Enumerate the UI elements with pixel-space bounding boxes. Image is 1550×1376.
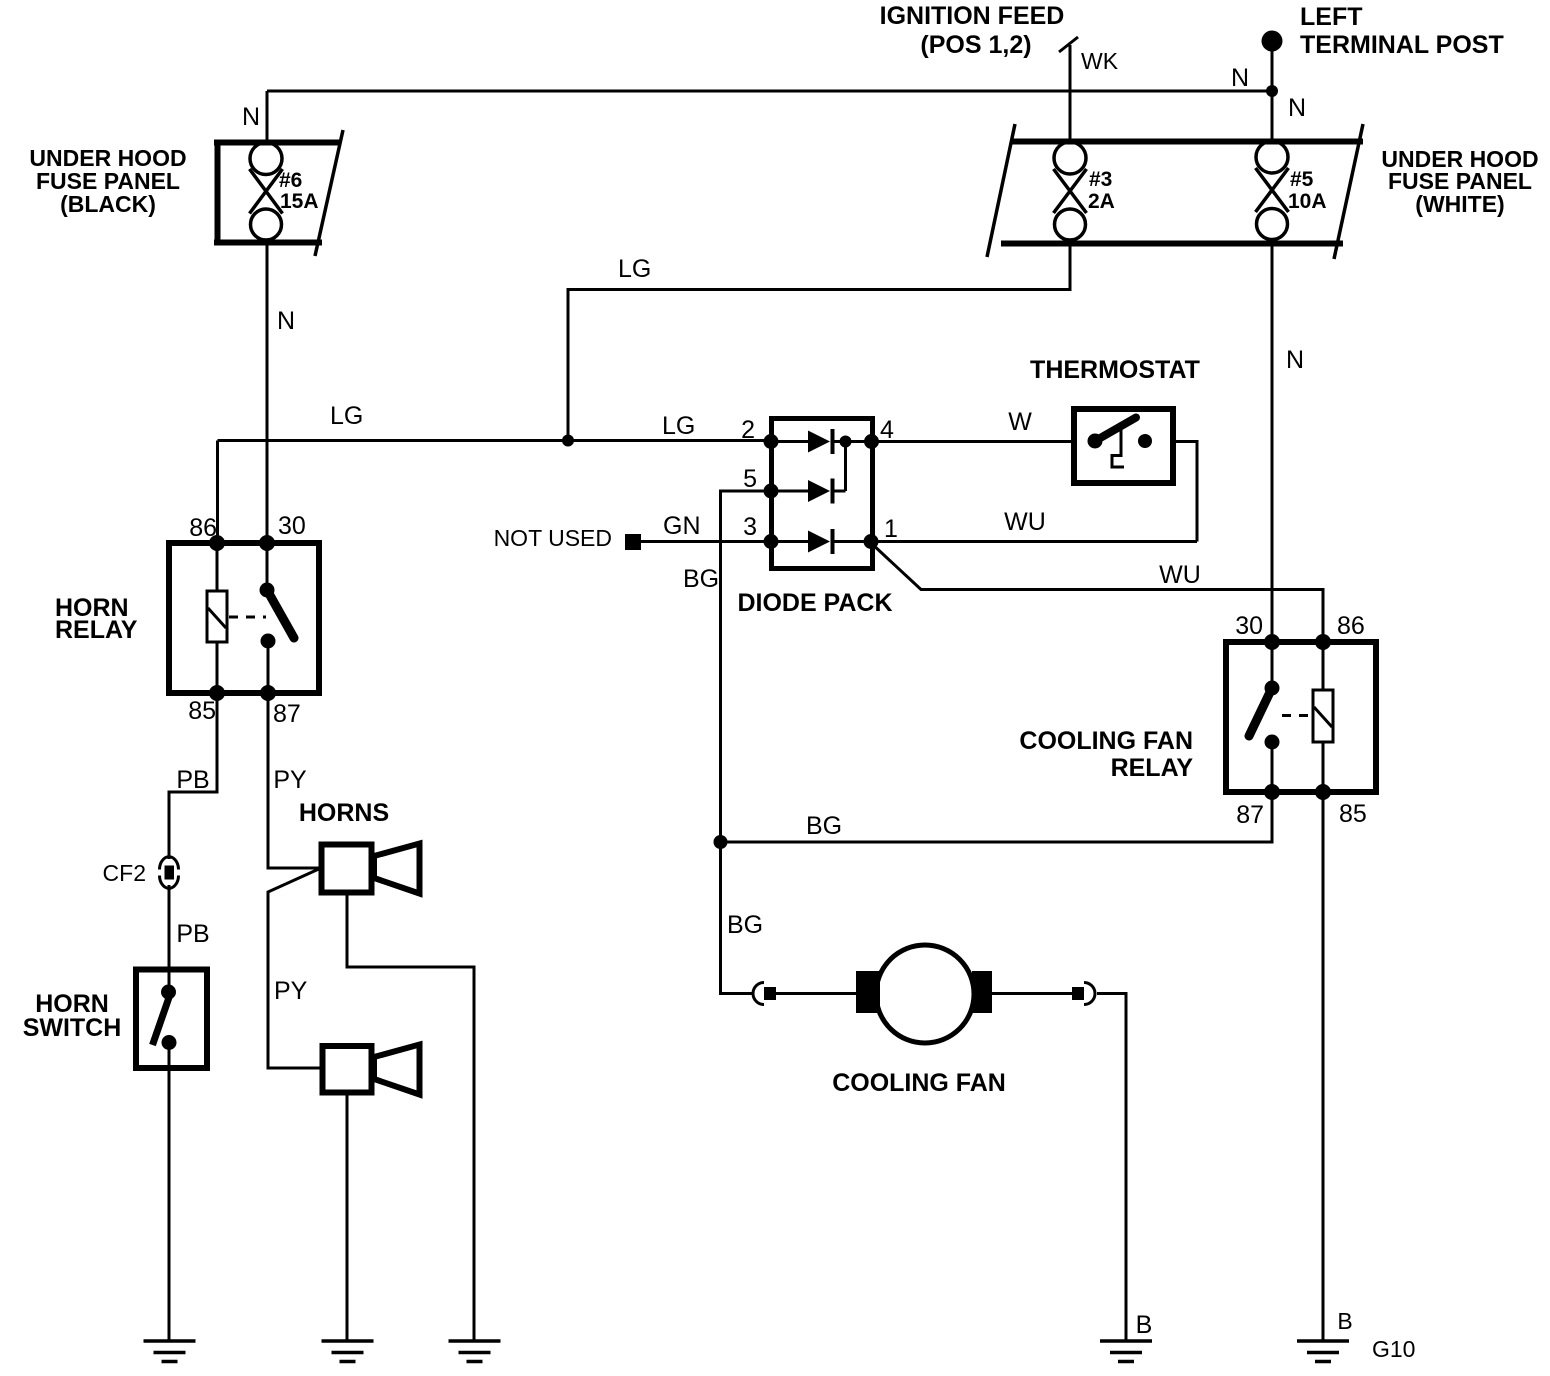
svg-text:COOLING FAN: COOLING FAN [832,1069,1006,1097]
svg-text:10A: 10A [1288,190,1327,213]
svg-text:5: 5 [743,465,757,493]
svg-text:86: 86 [189,514,217,542]
svg-text:PY: PY [273,766,307,794]
svg-text:4: 4 [880,416,894,444]
svg-text:2A: 2A [1088,190,1115,213]
svg-text:87: 87 [273,700,301,728]
svg-text:WU: WU [1159,561,1201,589]
svg-text:THERMOSTAT: THERMOSTAT [1030,356,1200,384]
svg-text:PB: PB [176,920,209,948]
svg-text:15A: 15A [280,190,319,213]
svg-text:#5: #5 [1290,168,1314,191]
svg-text:(WHITE): (WHITE) [1415,191,1504,217]
svg-text:CF2: CF2 [103,860,146,886]
svg-text:N: N [277,307,295,335]
svg-text:PB: PB [176,766,209,794]
svg-text:BG: BG [683,565,719,593]
svg-text:WK: WK [1081,48,1119,74]
svg-text:#3: #3 [1089,168,1112,191]
svg-text:BG: BG [727,911,763,939]
svg-text:WU: WU [1004,508,1046,536]
svg-text:HORNS: HORNS [299,799,389,827]
svg-text:30: 30 [1235,612,1263,640]
svg-text:COOLING FAN: COOLING FAN [1019,727,1193,755]
svg-text:G10: G10 [1372,1336,1415,1362]
svg-text:IGNITION FEED: IGNITION FEED [880,2,1065,30]
svg-text:N: N [1286,346,1304,374]
svg-text:N: N [1231,64,1249,92]
svg-text:N: N [242,103,260,131]
svg-text:(BLACK): (BLACK) [60,191,156,217]
svg-text:PY: PY [274,977,308,1005]
svg-text:NOT USED: NOT USED [494,525,612,551]
svg-text:3: 3 [743,513,757,541]
svg-text:N: N [1288,94,1306,122]
svg-text:30: 30 [278,512,306,540]
svg-text:85: 85 [188,697,216,725]
svg-text:85: 85 [1339,800,1367,828]
svg-text:GN: GN [663,512,701,540]
svg-text:2: 2 [741,416,755,444]
svg-text:BG: BG [806,812,842,840]
svg-text:TERMINAL POST: TERMINAL POST [1300,31,1504,59]
svg-text:LG: LG [618,255,651,283]
svg-text:B: B [1337,1308,1352,1334]
svg-text:B: B [1136,1311,1153,1339]
svg-text:DIODE PACK: DIODE PACK [737,589,892,617]
svg-text:LG: LG [330,402,363,430]
svg-text:86: 86 [1337,612,1365,640]
svg-text:RELAY: RELAY [55,616,138,644]
svg-text:(POS 1,2): (POS 1,2) [920,31,1031,59]
svg-text:SWITCH: SWITCH [23,1014,122,1042]
svg-text:1: 1 [884,515,898,543]
svg-text:#6: #6 [279,169,302,192]
svg-text:LG: LG [662,412,695,440]
svg-text:LEFT: LEFT [1300,3,1363,31]
svg-text:87: 87 [1236,801,1264,829]
svg-text:W: W [1008,408,1032,436]
svg-text:RELAY: RELAY [1111,754,1194,782]
